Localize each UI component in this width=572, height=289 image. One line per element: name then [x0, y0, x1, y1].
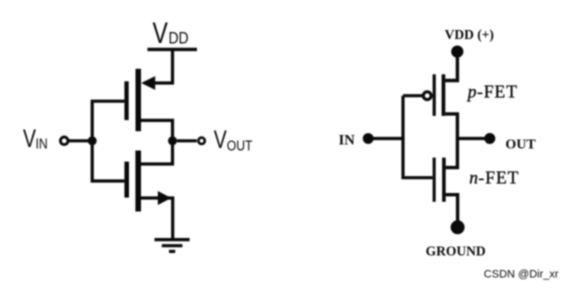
VDD terminal dot — [451, 46, 463, 58]
n-FET gate bar — [433, 158, 436, 202]
input terminal circle — [60, 137, 68, 145]
wire output node to OUT dot — [457, 137, 486, 140]
svg-text:VDD (+): VDD (+) — [445, 27, 494, 42]
svg-text:V: V — [23, 125, 36, 153]
NMOS Q2 channel bar — [135, 151, 141, 212]
svg-text:OUT: OUT — [227, 138, 253, 154]
p-FET channel bar — [442, 74, 446, 116]
NMOS Q2 gate bar — [124, 162, 129, 198]
IN terminal dot — [363, 133, 374, 144]
wire NMOS source to ground — [141, 198, 173, 238]
svg-text:-FET: -FET — [478, 168, 519, 188]
svg-text:n: n — [469, 168, 478, 188]
label VOUT — [214, 126, 253, 154]
wire input gate rail — [92, 101, 124, 181]
svg-text:GROUND: GROUND — [426, 243, 486, 258]
input rail (right circuit) — [403, 96, 433, 178]
GROUND terminal dot — [451, 220, 465, 234]
wire input terminal to junction — [69, 139, 90, 142]
n-FET channel bar — [442, 158, 446, 202]
wire PMOS drain to output node — [141, 120, 173, 140]
ground symbol — [155, 240, 190, 252]
net VDD label — [152, 16, 188, 49]
svg-text:DD: DD — [169, 29, 189, 48]
svg-text:p: p — [466, 81, 477, 101]
PMOS Q1 gate bar — [124, 81, 128, 120]
wire output node to terminal — [177, 139, 197, 142]
svg-text:V: V — [214, 126, 227, 154]
VDD rail bar — [147, 48, 197, 51]
svg-text:IN: IN — [339, 132, 356, 148]
label VIN — [23, 125, 48, 153]
svg-text:OUT: OUT — [505, 138, 536, 153]
label p-FET — [466, 81, 518, 101]
PMOS Q1 source arrow (points into channel) — [141, 76, 155, 90]
svg-text:V: V — [152, 16, 168, 49]
wire p-FET drain to n-FET drain (output rail) — [445, 114, 457, 168]
wire n-FET source to ground dot — [446, 195, 458, 222]
p-FET gate bar — [433, 74, 436, 116]
wire IN dot to rail — [371, 137, 405, 140]
PMOS Q1 channel bar — [136, 69, 142, 131]
OUT terminal dot — [484, 133, 495, 144]
wire NMOS drain to output node — [141, 141, 173, 164]
wire VDD dot to p-FET source — [445, 53, 457, 81]
wire VDD to PMOS source — [144, 49, 173, 83]
junction node VIN — [88, 136, 97, 145]
label n-FET — [469, 168, 519, 188]
svg-text:-FET: -FET — [477, 81, 518, 101]
svg-text:IN: IN — [36, 136, 48, 152]
wire bubble to input rail — [403, 94, 424, 97]
svg-text:CSDN @Dir_xr: CSDN @Dir_xr — [484, 269, 559, 281]
output terminal circle — [198, 138, 204, 144]
NMOS Q2 source arrow (points away from channel) — [158, 191, 172, 205]
p-FET gate bubble — [423, 92, 431, 100]
junction node VOUT — [168, 136, 177, 145]
